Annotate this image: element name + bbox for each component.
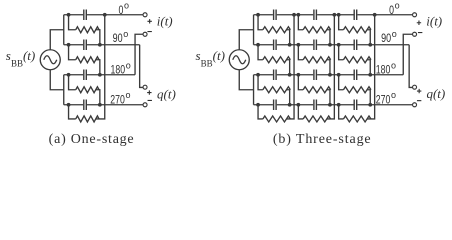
junction row1 tap stage 1 (b) — [256, 13, 260, 17]
wire 90deg to q+ terminal (a) — [140, 45, 143, 88]
capacitor C1b (b) stage 2 — [313, 10, 317, 21]
svg-text:0: 0 — [389, 3, 394, 17]
svg-text:o: o — [124, 1, 129, 11]
minus sign i (a) — [147, 31, 151, 33]
svg-text:o: o — [395, 1, 400, 11]
wire row 180deg (b) — [254, 74, 404, 76]
wire resistor R4 (a) wrap-around to row 0deg — [96, 15, 105, 119]
wire 180deg to i- terminal (a) — [135, 34, 143, 75]
junction row1 tap stage 3 (b) — [337, 13, 341, 17]
wire resistor R3 (a) left lead — [69, 75, 76, 90]
wire resistor R2a (b) right lead — [286, 60, 289, 75]
terminal i+ 0deg (a) — [143, 13, 147, 17]
wire resistor R1a (b) left lead — [258, 15, 263, 30]
capacitor C4c (b) stage 3 — [354, 100, 358, 111]
wire resistor R2 (a) left lead — [69, 45, 76, 60]
svg-text:i(t): i(t) — [157, 14, 173, 29]
wire resistor R2b (b) left lead — [298, 45, 303, 60]
capacitor C2 (a) row 90deg — [83, 40, 87, 51]
wire resistor R1b (b) left lead — [298, 15, 303, 30]
resistor R4 (a) — [76, 116, 99, 122]
resistor R3a (b) stage 1 — [263, 87, 291, 93]
junction row2 tap stage 2 (b) — [296, 43, 300, 47]
junction row2 R landing (a) — [98, 43, 102, 47]
junction row3 R landing stage 3 (b) — [368, 73, 372, 77]
wire 180deg to i- terminal (b) — [403, 34, 412, 75]
AC source (a) circle — [40, 50, 60, 70]
minus sign q (b) — [417, 100, 421, 102]
wire resistor R1c (b) left lead — [339, 15, 344, 30]
junction row2 R landing stage 3 (b) — [368, 43, 372, 47]
wire row 0deg (b) — [254, 14, 413, 16]
capacitor C2a (b) stage 1 — [273, 40, 277, 51]
minus sign q (a) — [148, 99, 152, 101]
resistor R4b (b) stage 2 — [303, 116, 331, 122]
wire input rail upper (a) — [63, 15, 65, 45]
wire input rail upper (b) — [253, 15, 255, 45]
terminal q+ 90deg (a) — [143, 85, 147, 89]
wire resistor R3c (b) left lead — [339, 75, 344, 90]
resistor R2c (b) stage 3 — [343, 57, 371, 63]
resistor R4a (b) stage 1 — [263, 116, 291, 122]
terminal i+ 0deg (b) — [413, 13, 417, 17]
capacitor C4 (a) row 270deg — [83, 100, 87, 111]
svg-text:o: o — [123, 29, 128, 39]
svg-text:o: o — [126, 60, 131, 70]
resistor R1b (b) stage 2 — [303, 27, 331, 33]
svg-text:(a) One-stage: (a) One-stage — [49, 132, 134, 147]
capacitor C3 (a) row 180deg — [83, 70, 87, 81]
resistor R1c (b) stage 3 — [343, 27, 371, 33]
junction row4 tap stage 1 (b) — [256, 103, 260, 107]
wire resistor R3 (a) right lead — [96, 90, 100, 105]
wire resistor R4c (b) left lead — [339, 105, 344, 119]
wire row 180deg (a) — [64, 74, 135, 76]
resistor R1 (a) — [76, 27, 99, 33]
wire resistor R3a (b) left lead — [258, 75, 263, 90]
capacitor C4b (b) stage 2 — [313, 100, 317, 111]
junction row4 tap stage 3 (b) — [337, 103, 341, 107]
resistor R1a (b) stage 1 — [263, 27, 291, 33]
wire resistor R2c (b) right lead — [367, 60, 370, 75]
plus sign q (b) — [417, 89, 421, 93]
wire row 90deg (b) — [254, 44, 410, 46]
wire resistor R2b (b) right lead — [327, 60, 330, 75]
wire row 270deg (a) — [64, 104, 143, 106]
AC source (a) sine symbol — [44, 56, 57, 64]
svg-text:o: o — [391, 90, 396, 100]
junction row3 R landing stage 2 (b) — [328, 73, 332, 77]
wire resistor R4b (b) left lead — [298, 105, 303, 119]
junction row1 wrap node (a) — [103, 13, 107, 17]
junction row4 R landing stage 1 (b) — [288, 103, 292, 107]
junction row1 wrap node stage 2 (b) — [332, 13, 336, 17]
svg-text:o: o — [125, 90, 130, 100]
resistor R3b (b) stage 2 — [303, 87, 331, 93]
svg-text:BB: BB — [11, 58, 23, 68]
wire 90deg to q+ terminal (b) — [409, 45, 412, 88]
terminal i- 180deg (b) — [413, 32, 417, 36]
plus sign i (a) — [147, 19, 151, 23]
wire row 0deg (a) — [64, 14, 143, 16]
wire resistor R4b (b) wrap-around to row 0deg — [327, 15, 335, 119]
wire source (a) bottom lead — [50, 70, 64, 90]
junction row1 wrap node stage 3 (b) — [373, 13, 377, 17]
wire resistor R3c (b) right lead — [367, 90, 370, 105]
junction row3 tap stage 2 (b) — [296, 73, 300, 77]
capacitor C3a (b) stage 1 — [273, 70, 277, 81]
svg-text:q(t): q(t) — [426, 86, 445, 101]
junction row1 wrap node stage 1 (b) — [292, 13, 296, 17]
wire input rail lower (b) — [253, 75, 255, 105]
junction row4 tap stage 2 (b) — [296, 103, 300, 107]
resistor R2 (a) — [76, 57, 99, 63]
svg-text:0: 0 — [118, 3, 123, 17]
svg-text:90: 90 — [381, 31, 391, 45]
wire resistor R2 (a) right lead — [96, 60, 100, 75]
resistor R2b (b) stage 2 — [303, 57, 331, 63]
wire source (b) top lead — [239, 30, 253, 50]
svg-text:180: 180 — [111, 63, 126, 77]
terminal q+ 90deg (b) — [413, 85, 417, 89]
wire source (a) top lead — [50, 30, 64, 50]
junction row2 R landing stage 2 (b) — [328, 43, 332, 47]
svg-text:o: o — [391, 60, 396, 70]
terminal i- 180deg (a) — [143, 32, 147, 36]
junction row4 input tap (a) — [67, 103, 71, 107]
junction row1 tap stage 2 (b) — [296, 13, 300, 17]
svg-text:q(t): q(t) — [157, 87, 176, 102]
wire resistor R1 (a) left lead — [69, 15, 76, 30]
capacitor C3b (b) stage 2 — [313, 70, 317, 81]
junction row3 tap stage 1 (b) — [256, 73, 260, 77]
capacitor C1a (b) stage 1 — [273, 10, 277, 21]
wire resistor R2c (b) left lead — [339, 45, 344, 60]
wire resistor R3b (b) right lead — [327, 90, 330, 105]
wire resistor R4a (b) left lead — [258, 105, 263, 119]
junction row3 input tap (a) — [67, 73, 71, 77]
wire resistor R2a (b) left lead — [258, 45, 263, 60]
wire resistor R4a (b) wrap-around to row 0deg — [286, 15, 294, 119]
wire resistor R3b (b) left lead — [298, 75, 303, 90]
svg-text:o: o — [392, 29, 397, 39]
wire row 90deg (a) — [64, 44, 140, 46]
resistor R3 (a) — [76, 87, 99, 93]
svg-text:(t): (t) — [213, 48, 225, 63]
AC source (b) circle — [229, 50, 249, 70]
capacitor C2c (b) stage 3 — [354, 40, 358, 51]
wire resistor R1 (a) right lead — [96, 30, 100, 45]
resistor R2a (b) stage 1 — [263, 57, 291, 63]
junction row3 R landing stage 1 (b) — [288, 73, 292, 77]
svg-text:(b) Three-stage: (b) Three-stage — [273, 132, 371, 147]
junction row3 tap stage 3 (b) — [337, 73, 341, 77]
wire resistor R1b (b) right lead — [327, 30, 330, 45]
wire resistor R1a (b) right lead — [286, 30, 289, 45]
capacitor C2b (b) stage 2 — [313, 40, 317, 51]
wire row 270deg (b) — [254, 104, 413, 106]
AC source (b) sine symbol — [233, 56, 246, 64]
wire resistor R4 (a) left lead — [69, 105, 76, 119]
terminal q- 270deg (a) — [143, 103, 147, 107]
svg-text:i(t): i(t) — [426, 14, 442, 29]
capacitor C4a (b) stage 1 — [273, 100, 277, 111]
junction row1 input tap (a) — [67, 13, 71, 17]
junction row3 R landing (a) — [98, 73, 102, 77]
junction row4 R landing (a) — [98, 103, 102, 107]
wire resistor R3a (b) right lead — [286, 90, 289, 105]
terminal q- 270deg (b) — [413, 103, 417, 107]
junction row2 tap stage 3 (b) — [337, 43, 341, 47]
junction row2 input tap (a) — [67, 43, 71, 47]
junction row4 R landing stage 3 (b) — [368, 103, 372, 107]
svg-text:180: 180 — [376, 63, 391, 77]
capacitor C1 (a) row 0deg — [83, 10, 87, 21]
wire input rail lower (a) — [63, 75, 65, 105]
plus sign q (a) — [147, 90, 151, 94]
svg-text:BB: BB — [201, 58, 213, 68]
junction row2 tap stage 1 (b) — [256, 43, 260, 47]
svg-text:270: 270 — [376, 92, 391, 106]
capacitor C1c (b) stage 3 — [354, 10, 358, 21]
junction row2 R landing stage 1 (b) — [288, 43, 292, 47]
svg-text:90: 90 — [113, 31, 123, 45]
wire resistor R4c (b) wrap-around to row 0deg — [367, 15, 375, 119]
svg-text:(t): (t) — [23, 48, 35, 63]
capacitor C3c (b) stage 3 — [354, 70, 358, 81]
resistor R4c (b) stage 3 — [343, 116, 371, 122]
wire resistor R1c (b) right lead — [367, 30, 370, 45]
minus sign i (b) — [418, 32, 422, 34]
junction row4 R landing stage 2 (b) — [328, 103, 332, 107]
svg-text:270: 270 — [110, 92, 125, 106]
wire source (b) bottom lead — [239, 70, 253, 90]
plus sign i (b) — [417, 21, 421, 25]
resistor R3c (b) stage 3 — [343, 87, 371, 93]
